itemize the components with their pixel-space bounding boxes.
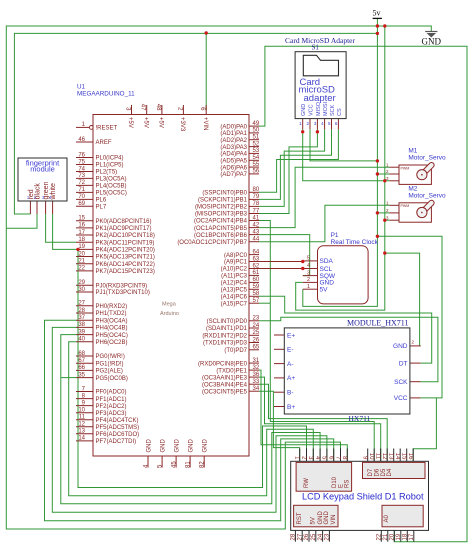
svg-text:B-: B- (287, 390, 294, 397)
svg-text:(RXD0PCIN8)PE0: (RXD0PCIN8)PE0 (198, 361, 248, 367)
svg-text:20: 20 (390, 533, 396, 540)
svg-text:PK5(ADC13PCINT21): PK5(ADC13PCINT21) (96, 255, 155, 261)
svg-text:32: 32 (253, 365, 260, 371)
svg-text:HX711: HX711 (349, 414, 371, 423)
svg-text:PH1(TXD2): PH1(TXD2) (96, 311, 127, 317)
svg-text:(AD2)PA2: (AD2)PA2 (220, 138, 247, 144)
svg-text:PK7(ADC15PCINT23): PK7(ADC15PCINT23) (96, 269, 155, 275)
svg-text:76: 76 (78, 152, 85, 158)
svg-text:(OC0AOC1CPCINT7)PB7: (OC0AOC1CPCINT7)PB7 (177, 240, 247, 246)
svg-text:PG2(ALE): PG2(ALE) (96, 369, 123, 375)
svg-text:75: 75 (78, 159, 85, 165)
svg-text:34: 34 (253, 386, 260, 392)
svg-text:SCK: SCK (394, 379, 408, 386)
svg-text:2: 2 (307, 277, 310, 283)
svg-text:PL3(OC5A): PL3(OC5A) (96, 177, 127, 183)
svg-text:DT: DT (399, 360, 408, 367)
svg-text:50: 50 (253, 128, 260, 134)
svg-text:12: 12 (78, 422, 85, 428)
svg-text:(TXD1INT3)PD3: (TXD1INT3)PD3 (203, 341, 248, 347)
svg-text:D7: D7 (368, 468, 374, 476)
svg-text:SCL: SCL (320, 266, 333, 273)
svg-text:(MOSIPCINT2)PB2: (MOSIPCINT2)PB2 (195, 205, 248, 211)
svg-text:(AD1)PA1: (AD1)PA1 (220, 131, 247, 137)
svg-text:GND: GND (324, 511, 330, 525)
svg-text:(A8)PC0: (A8)PC0 (224, 253, 248, 259)
svg-text:PH6(OC2B): PH6(OC2B) (96, 340, 128, 346)
svg-text:PG1(!RD!): PG1(!RD!) (96, 361, 124, 367)
svg-text:80: 80 (253, 187, 260, 193)
svg-text:PG5(OC0B): PG5(OC0B) (96, 376, 128, 382)
svg-text:Card MicroSD Adapter: Card MicroSD Adapter (285, 36, 355, 45)
svg-text:(AD7)PA7: (AD7)PA7 (220, 172, 247, 178)
svg-text:38: 38 (78, 322, 85, 328)
svg-text:SCK: SCK (330, 104, 336, 116)
svg-text:13: 13 (78, 429, 85, 435)
svg-text:PK4(ADC12PCINT20): PK4(ADC12PCINT20) (96, 248, 155, 254)
svg-text:5: 5 (307, 256, 310, 262)
svg-text:Arduino: Arduino (160, 311, 179, 317)
svg-text:VCC: VCC (394, 395, 408, 402)
svg-text:27: 27 (297, 533, 303, 540)
svg-text:Motor_Servo: Motor_Servo (408, 192, 446, 199)
svg-text:(A15)PC7: (A15)PC7 (221, 301, 248, 307)
svg-text:68: 68 (78, 351, 85, 357)
svg-text:(T0)PD7: (T0)PD7 (224, 348, 247, 354)
svg-text:66: 66 (78, 365, 85, 371)
svg-text:44: 44 (253, 237, 260, 243)
svg-text:(SCLINT0)PD0: (SCLINT0)PD0 (207, 319, 248, 325)
svg-text:52: 52 (253, 141, 260, 147)
svg-text:+5V: +5V (142, 117, 148, 128)
svg-text:5V: 5V (320, 287, 329, 294)
svg-text:PF4(ADC4TCK): PF4(ADC4TCK) (96, 418, 139, 424)
svg-text:62: 62 (253, 263, 260, 269)
svg-text:PL7: PL7 (96, 205, 107, 211)
svg-text:(OC3BAIN4)PE4: (OC3BAIN4)PE4 (202, 382, 248, 388)
svg-text:71: 71 (78, 187, 85, 193)
svg-text:!RESET: !RESET (96, 126, 118, 132)
svg-text:PH3(OC4A): PH3(OC4A) (96, 318, 128, 324)
svg-text:(SCKPCINT1)PB1: (SCKPCINT1)PB1 (198, 198, 248, 204)
svg-text:GND: GND (175, 439, 181, 453)
svg-text:19: 19 (396, 533, 402, 540)
svg-text:23: 23 (325, 533, 331, 540)
svg-text:SDA: SDA (320, 258, 334, 265)
svg-text:25: 25 (311, 533, 317, 540)
svg-text:MODULE_HX711: MODULE_HX711 (347, 319, 408, 328)
svg-text:PL2(T5): PL2(T5) (96, 170, 118, 176)
svg-text:24: 24 (318, 533, 324, 540)
svg-text:PF2(ADC2): PF2(ADC2) (96, 404, 127, 410)
svg-text:LCD Keypad Shield D1 Robot: LCD Keypad Shield D1 Robot (302, 491, 424, 501)
svg-text:PF0(ADC0): PF0(ADC0) (96, 390, 127, 396)
svg-text:59: 59 (253, 284, 260, 290)
svg-text:GND: GND (318, 511, 324, 525)
svg-text:E+: E+ (287, 332, 295, 339)
svg-text:48: 48 (155, 104, 161, 111)
svg-text:81: 81 (186, 461, 192, 468)
svg-text:24: 24 (253, 323, 260, 329)
svg-text:(SDAINT1)PD1: (SDAINT1)PD1 (206, 326, 248, 332)
svg-text:14: 14 (78, 436, 85, 442)
svg-text:MOSI: MOSI (323, 101, 329, 116)
svg-text:D10: D10 (332, 476, 338, 488)
svg-text:10: 10 (368, 453, 374, 460)
svg-text:39: 39 (78, 329, 85, 335)
svg-text:PH4(OC4B): PH4(OC4B) (96, 326, 128, 332)
svg-text:PF6(ADC6TDO): PF6(ADC6TDO) (96, 432, 140, 438)
svg-text:57: 57 (253, 298, 260, 304)
svg-text:D6: D6 (374, 468, 380, 476)
svg-text:(OC3CINT5)PE5: (OC3CINT5)PE5 (202, 389, 248, 395)
svg-text:RST: RST (297, 512, 303, 524)
svg-text:5V: 5V (311, 517, 317, 524)
svg-text:(A9)PC1: (A9)PC1 (224, 260, 248, 266)
svg-text:10: 10 (78, 408, 85, 414)
svg-text:15: 15 (78, 216, 85, 222)
svg-text:43: 43 (253, 229, 260, 235)
svg-text:+5V: +5V (127, 117, 133, 128)
svg-text:(TXD0)PE1: (TXD0)PE1 (216, 368, 247, 374)
svg-text:54: 54 (253, 155, 260, 161)
svg-text:74: 74 (78, 166, 85, 172)
svg-text:16: 16 (78, 223, 85, 229)
svg-text:(RXD1INT2)PD2: (RXD1INT2)PD2 (202, 334, 247, 340)
svg-text:GND: GND (189, 439, 195, 453)
svg-text:29: 29 (78, 280, 85, 286)
svg-text:AREF: AREF (96, 140, 112, 146)
svg-text:PK2(ADC10PCINT18): PK2(ADC10PCINT18) (96, 233, 155, 239)
svg-text:14: 14 (394, 453, 400, 460)
svg-text:Mega: Mega (162, 302, 177, 308)
svg-text:22: 22 (377, 533, 383, 540)
svg-text:49: 49 (253, 121, 260, 127)
svg-text:55: 55 (253, 162, 260, 168)
svg-text:20: 20 (78, 251, 85, 257)
svg-text:70: 70 (78, 194, 85, 200)
svg-text:30: 30 (78, 287, 85, 293)
svg-text:PJ1(TXD3PCINT10): PJ1(TXD3PCINT10) (96, 290, 150, 296)
svg-text:40: 40 (78, 337, 85, 343)
svg-text:(OC1BPCINT6)PB6: (OC1BPCINT6)PB6 (194, 233, 248, 239)
svg-text:(AD6)PA6: (AD6)PA6 (220, 165, 247, 171)
svg-text:21: 21 (78, 259, 85, 265)
svg-text:3: 3 (307, 270, 310, 276)
svg-text:CS: CS (337, 108, 343, 116)
svg-text:A+: A+ (287, 375, 295, 382)
svg-text:22: 22 (78, 266, 85, 272)
svg-text:RS: RS (345, 480, 351, 488)
svg-text:(OC3AAIN1)PE3: (OC3AAIN1)PE3 (202, 375, 248, 381)
svg-text:+VIN: +VIN (202, 117, 208, 131)
svg-text:PK6(ADC14PCINT22): PK6(ADC14PCINT22) (96, 262, 155, 268)
svg-text:41: 41 (253, 215, 260, 221)
svg-text:58: 58 (253, 291, 260, 297)
svg-text:77: 77 (253, 208, 260, 214)
svg-text:21: 21 (383, 533, 389, 540)
svg-text:(A11)PC3: (A11)PC3 (221, 274, 248, 280)
svg-text:18: 18 (403, 533, 409, 540)
svg-text:D4: D4 (387, 468, 393, 476)
svg-text:27: 27 (78, 301, 85, 307)
svg-text:Motor_Servo: Motor_Servo (408, 154, 446, 161)
svg-text:63: 63 (253, 256, 260, 262)
svg-text:33: 33 (253, 379, 260, 385)
svg-text:72: 72 (78, 180, 85, 186)
svg-text:(AD4)PA4: (AD4)PA4 (220, 152, 247, 158)
svg-text:26: 26 (304, 533, 310, 540)
svg-text:A0: A0 (384, 514, 390, 522)
svg-text:PF3(ADC3): PF3(ADC3) (96, 411, 127, 417)
svg-text:(A14)PC6: (A14)PC6 (221, 295, 248, 301)
svg-text:PK3(ADC11PCINT19): PK3(ADC11PCINT19) (96, 240, 155, 246)
svg-text:73: 73 (78, 173, 85, 179)
svg-text:64: 64 (253, 249, 260, 255)
svg-text:78: 78 (253, 201, 260, 207)
svg-text:(AD0)PA0: (AD0)PA0 (220, 124, 247, 130)
svg-text:PJ0(RXD3PCINT9): PJ0(RXD3PCINT9) (96, 283, 148, 289)
svg-text:13: 13 (388, 453, 394, 460)
svg-text:D5: D5 (381, 468, 387, 476)
svg-text:A-: A- (287, 361, 294, 368)
svg-text:5v: 5v (373, 9, 381, 18)
svg-text:82: 82 (200, 461, 206, 468)
svg-text:GND: GND (393, 343, 408, 350)
svg-text:36: 36 (253, 372, 260, 378)
svg-text:35: 35 (78, 372, 85, 378)
svg-text:53: 53 (253, 148, 260, 154)
svg-text:45: 45 (172, 461, 178, 468)
svg-text:VIN: VIN (331, 514, 337, 524)
svg-text:79: 79 (253, 194, 260, 200)
svg-text:69: 69 (78, 201, 85, 207)
svg-text:PL1(ICP5): PL1(ICP5) (96, 163, 124, 169)
svg-text:Real Time Clock: Real Time Clock (331, 239, 379, 246)
svg-text:PL4(OC5B): PL4(OC5B) (96, 184, 127, 190)
svg-text:60: 60 (253, 277, 260, 283)
svg-text:(SSPCINT0)PB0: (SSPCINT0)PB0 (202, 191, 247, 197)
svg-text:11: 11 (79, 415, 86, 421)
svg-text:S1: S1 (312, 44, 320, 52)
svg-text:(A12)PC4: (A12)PC4 (221, 281, 248, 287)
svg-text:67: 67 (78, 358, 85, 364)
svg-text:RW: RW (304, 478, 310, 488)
svg-text:65: 65 (253, 345, 260, 351)
svg-text:module: module (30, 164, 55, 173)
svg-text:17: 17 (409, 533, 415, 540)
svg-text:56: 56 (253, 169, 260, 175)
svg-text:PL0(ICP4): PL0(ICP4) (96, 156, 124, 162)
svg-text:B+: B+ (287, 404, 295, 411)
svg-text:(OC2APCINT4)PB4: (OC2APCINT4)PB4 (194, 219, 248, 225)
svg-text:+3V3: +3V3 (179, 117, 185, 132)
svg-text:42: 42 (253, 222, 260, 228)
svg-text:PH5(OC4C): PH5(OC4C) (96, 333, 128, 339)
svg-text:GND: GND (203, 439, 209, 453)
svg-text:47: 47 (140, 104, 146, 111)
svg-text:PL5(OC5C): PL5(OC5C) (96, 191, 127, 197)
svg-text:11: 11 (375, 453, 381, 460)
svg-text:(A13)PC5: (A13)PC5 (221, 288, 248, 294)
svg-text:E: E (339, 484, 345, 488)
svg-text:4: 4 (307, 263, 310, 269)
svg-text:25: 25 (253, 330, 260, 336)
svg-text:17: 17 (78, 230, 85, 236)
svg-text:PK1(ADC9PCINT17): PK1(ADC9PCINT17) (96, 226, 152, 232)
svg-text:+5V: +5V (158, 117, 164, 128)
svg-text:PK0(ADC8PCINT16): PK0(ADC8PCINT16) (96, 219, 152, 225)
svg-text:(AD5)PA5: (AD5)PA5 (220, 159, 247, 165)
svg-text:E-: E- (287, 347, 294, 354)
svg-text:1: 1 (307, 284, 310, 290)
svg-text:GND: GND (161, 439, 167, 453)
svg-text:(A10)PC2: (A10)PC2 (221, 267, 248, 273)
svg-text:PF7(ADC7TDI): PF7(ADC7TDI) (96, 439, 137, 445)
svg-text:MISO: MISO (316, 101, 322, 116)
svg-text:PWM: PWM (401, 204, 410, 208)
svg-text:PG0(!WR!): PG0(!WR!) (96, 354, 125, 360)
svg-text:VCC: VCC (308, 104, 314, 116)
svg-text:(OC1APCINT5)PB5: (OC1APCINT5)PB5 (194, 226, 248, 232)
svg-text:61: 61 (253, 270, 260, 276)
svg-text:31: 31 (253, 358, 260, 364)
svg-text:16: 16 (407, 453, 413, 460)
svg-text:PWM: PWM (401, 166, 410, 170)
svg-text:46: 46 (78, 137, 85, 143)
svg-text:GND: GND (147, 439, 153, 453)
svg-text:GND: GND (422, 37, 442, 47)
svg-text:51: 51 (253, 135, 260, 141)
svg-text:15: 15 (401, 453, 407, 460)
svg-text:28: 28 (78, 308, 85, 314)
svg-text:GND: GND (301, 104, 307, 116)
svg-text:18: 18 (78, 237, 85, 243)
svg-text:PH0(RXD2): PH0(RXD2) (96, 304, 128, 310)
svg-text:26: 26 (253, 337, 260, 343)
svg-text:12: 12 (381, 453, 387, 460)
svg-text:PL6: PL6 (96, 198, 107, 204)
svg-text:PF1(ADC1): PF1(ADC1) (96, 397, 127, 403)
svg-text:(AD3)PA3: (AD3)PA3 (220, 145, 247, 151)
svg-text:28: 28 (291, 533, 297, 540)
svg-text:MEGAARDUINO_11: MEGAARDUINO_11 (77, 90, 135, 97)
svg-text:23: 23 (253, 316, 260, 322)
svg-text:PF5(ADC5TMS): PF5(ADC5TMS) (96, 425, 140, 431)
svg-text:37: 37 (78, 315, 85, 321)
svg-text:(MISOPCINT3)PB3: (MISOPCINT3)PB3 (195, 212, 248, 218)
